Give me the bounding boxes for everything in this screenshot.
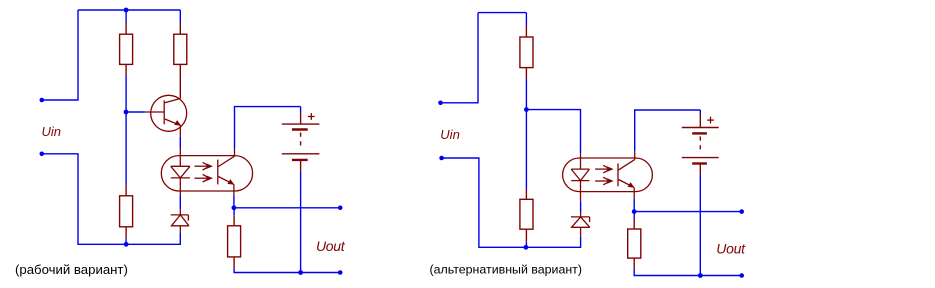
terminal: right Uout + xyxy=(739,209,744,214)
node: right divider junction xyxy=(524,107,529,112)
wire: right input- lead and bottom rail xyxy=(442,158,581,247)
wire: divider node to LED top xyxy=(526,110,580,154)
wire: base node down to R3 xyxy=(125,112,127,185)
svg-text:Uin: Uin xyxy=(42,124,62,139)
wire: opto emitter down to output node xyxy=(233,195,235,208)
wire: R5 top lead xyxy=(525,13,527,26)
wire: emitter to opto LED xyxy=(179,137,181,148)
battery B2 xyxy=(682,115,719,175)
wire: right opto emitter down to output node xyxy=(633,199,635,212)
resistor R1 xyxy=(120,23,133,77)
wire: opto collector to battery top xyxy=(235,107,301,149)
wire: R1 bottom to base node xyxy=(125,76,127,112)
wire: right input+ lead up to top rail xyxy=(441,13,479,103)
wire: R2 top lead xyxy=(179,10,181,23)
node: right emitter / R7 junction xyxy=(632,209,637,214)
node: battery / output rail junction xyxy=(298,270,303,275)
wire: battery negative down to output rail xyxy=(300,172,302,273)
terminal: right Uout - xyxy=(739,273,744,278)
wire: bottom output rail xyxy=(234,268,340,272)
terminal: right Uin - xyxy=(439,156,444,161)
wire: right LED cathode to zener xyxy=(580,201,582,212)
wire: opto LED cathode to zener xyxy=(179,195,181,209)
wire: right top rail xyxy=(478,12,526,14)
wire: R1 top lead xyxy=(125,10,127,23)
wire: battery B2 negative down to output rail xyxy=(699,175,701,276)
wire: battery top lead xyxy=(300,107,302,113)
resistor R6 xyxy=(520,190,533,242)
zener diode VD1 xyxy=(171,209,189,233)
optocoupler U2 xyxy=(563,151,653,201)
resistor R4 xyxy=(228,215,241,268)
node: right bottom rail / R6 junction xyxy=(524,245,529,250)
resistor R2 xyxy=(174,23,187,99)
wire: base node to transistor base xyxy=(126,111,145,113)
transistor Q1 xyxy=(145,95,187,136)
wire: R4 top lead xyxy=(233,208,235,216)
resistor R5 xyxy=(520,26,533,80)
resistor R7 xyxy=(628,219,641,269)
node: junction top rail / R1 xyxy=(124,8,129,13)
svg-text:Uout: Uout xyxy=(316,238,346,254)
svg-text:(альтернативный вариант): (альтернативный вариант) xyxy=(430,262,583,276)
node: bottom rail / R3 junction xyxy=(124,242,129,247)
wire: battery B2 top lead xyxy=(699,110,701,115)
node: battery B2 / output rail junction xyxy=(698,273,703,278)
node: emitter / R4 junction xyxy=(232,205,237,210)
zener diode VD2 xyxy=(571,213,590,237)
wire: divider node down to R6 xyxy=(525,110,527,190)
svg-text:(рабочий вариант): (рабочий вариант) xyxy=(15,262,128,277)
wire: left top rail xyxy=(78,9,180,11)
wire: R3 bottom to rail xyxy=(125,239,127,245)
wire: R5 bottom to divider node xyxy=(525,79,527,110)
resistor R3 xyxy=(120,185,133,239)
wire: left input+ lead up to top rail xyxy=(42,10,78,100)
svg-text:Uout: Uout xyxy=(716,241,746,257)
node: base junction xyxy=(124,110,129,115)
svg-text:Uin: Uin xyxy=(440,127,460,142)
terminal: Uout - xyxy=(338,270,343,275)
wire: right output node row to Uout+ terminal xyxy=(634,211,742,213)
wire: R6 bottom to rail xyxy=(525,242,527,248)
label: battery B2 plus sign xyxy=(707,117,714,124)
optocoupler U1 xyxy=(161,148,252,196)
battery B1 xyxy=(282,113,320,172)
terminal: Uin - xyxy=(40,152,45,157)
wire: R7 top lead xyxy=(633,212,635,219)
label: battery B1 plus sign xyxy=(308,113,315,120)
terminal: Uin + xyxy=(40,98,45,103)
terminal: right Uin + xyxy=(438,101,443,106)
wire: left input- lead and bottom rail xyxy=(42,154,181,245)
terminal: Uout + xyxy=(338,206,343,211)
wire: right bottom output rail xyxy=(634,269,742,276)
wire: right opto collector to battery top xyxy=(635,110,701,151)
wire: output node row to Uout+ terminal xyxy=(234,207,340,209)
